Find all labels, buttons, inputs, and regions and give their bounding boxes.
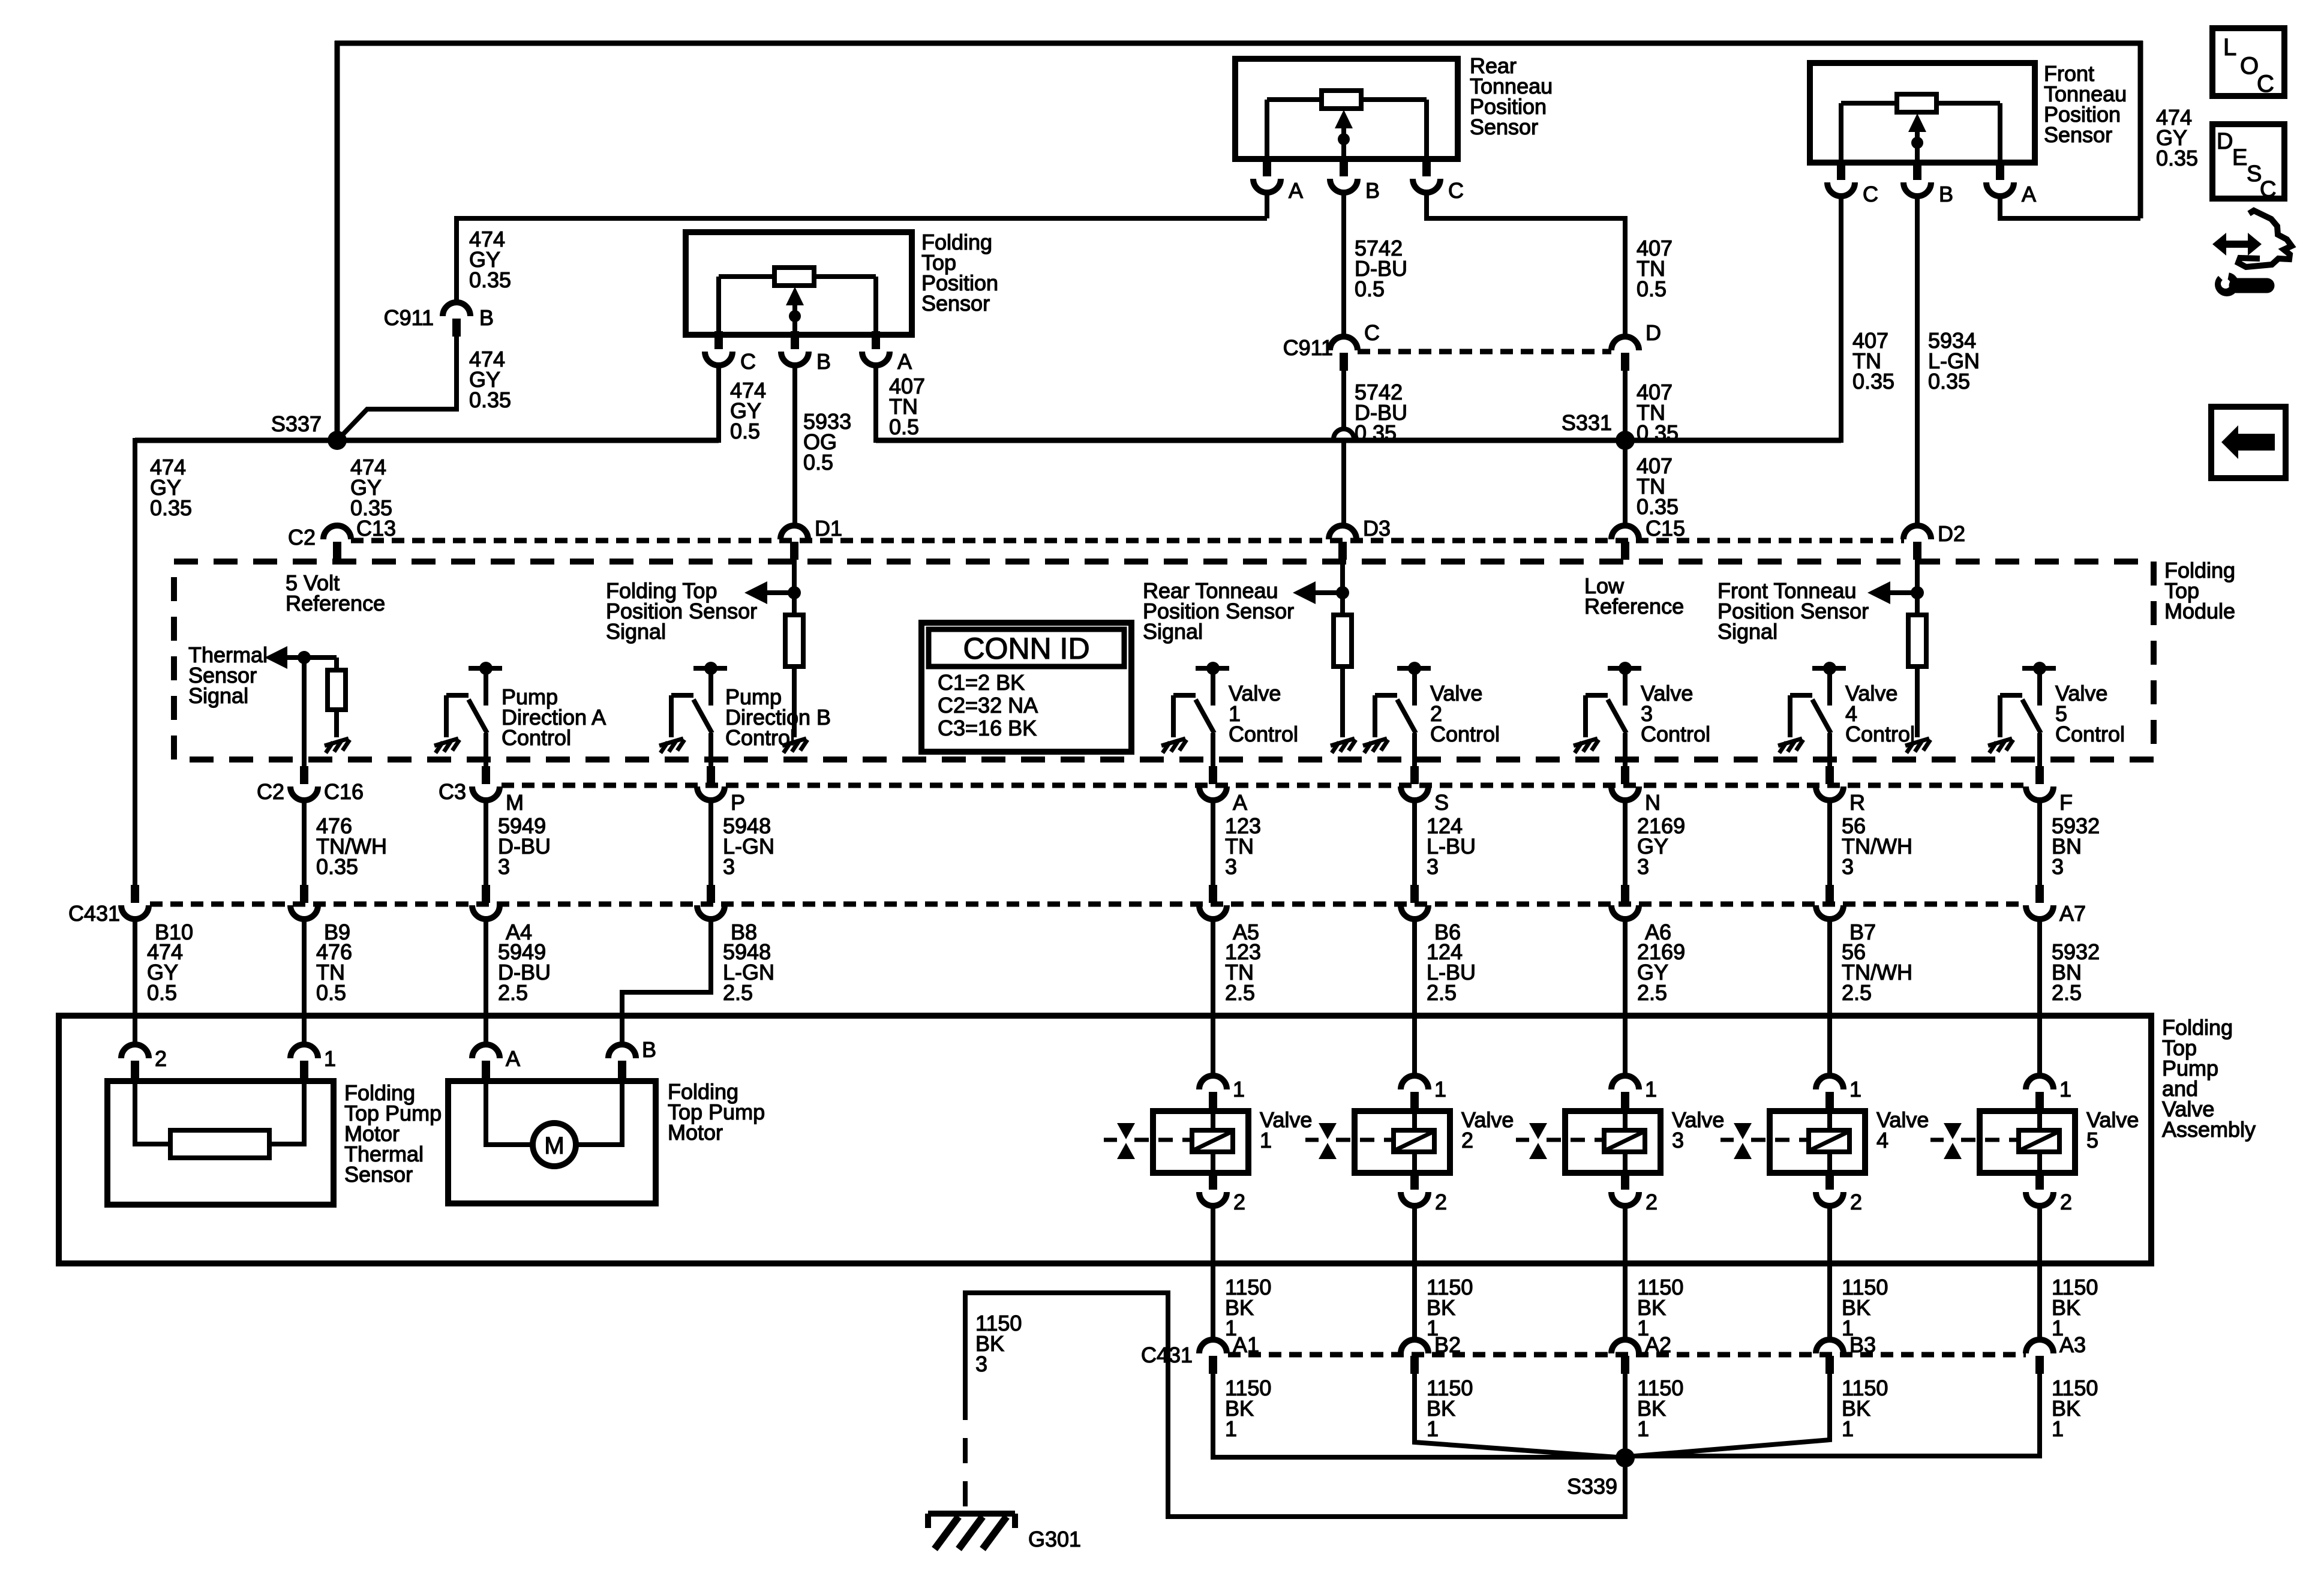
svg-text:C911: C911 [384,305,434,330]
wire module to C431 [1412,800,1417,885]
label Valve 4 Control [1845,681,1915,746]
svg-text:2.5: 2.5 [1427,980,1457,1005]
connector pin A motor [472,1044,500,1079]
node Rear Tonneau signal junction [1293,581,1349,604]
label pin A5 [1233,920,1259,944]
connector C911 D [1611,337,1639,371]
box valve 3 solenoid [1565,1111,1661,1173]
label Rear Tonneau Position Sensor [1470,53,1553,139]
connector C911 C [1330,337,1358,371]
label pin 2 valve 1 [1233,1190,1245,1214]
svg-text:B: B [1939,182,1953,206]
wire module to C431 [1623,800,1628,885]
wire 474 GY left vertical [335,41,340,440]
connector D1 [780,526,808,560]
svg-text:N: N [1645,790,1661,815]
label wire 2169 GY lower [1637,939,1685,1005]
icon LOC box [2212,28,2284,97]
wire valve 4 pin2 down [1827,1206,1832,1341]
svg-text:C3=16 BK: C3=16 BK [938,716,1037,740]
connector A5 C431 [1199,885,1227,919]
label wire 1150 BK below B2 [1427,1376,1473,1441]
svg-text:S337: S337 [271,412,322,436]
wire Folding Top resistor to ground [792,667,797,737]
svg-text:R: R [1849,790,1865,815]
connector pin 1 valve 5 [2026,1076,2053,1110]
label pin 2 valve 2 [1435,1190,1447,1214]
svg-text:A: A [1289,178,1303,203]
label pin A rear [1289,178,1303,203]
connector B3 C431 bottom [1816,1340,1843,1374]
connector pin B rear sensor [1330,158,1358,193]
wire folding sensor pin C drop [716,365,721,443]
wire 474 GY right vertical [2138,41,2143,218]
label wire 1150 BK below A2 [1637,1376,1683,1441]
connector line C431 dashed [150,902,2026,907]
svg-text:C2: C2 [257,779,284,804]
label pin A folding [897,349,912,374]
svg-text:1: 1 [1849,1077,1861,1101]
wire valve 3 pin2 down [1623,1206,1628,1341]
svg-text:M: M [544,1133,564,1159]
label wire 407 TN front C [1852,328,1894,394]
svg-text:C1=2 BK: C1=2 BK [938,670,1025,695]
label pin A [1233,790,1247,815]
label pin B folding [816,349,831,374]
label Folding Top Pump Motor Thermal Sensor [344,1080,442,1187]
label Rear Tonneau Position Sensor signal [1143,578,1294,644]
connector B8 C431 [697,885,725,919]
svg-text:C16: C16 [324,779,364,804]
label pin B rear [1365,178,1380,203]
component Front Tonneau Position Sensor [1810,63,2035,163]
svg-text:S331: S331 [1562,410,1612,435]
label Valve 2 [1461,1107,1514,1152]
wire S339 to ground run [965,1293,1625,1517]
wire C431 to pump assembly [484,919,488,1044]
label Valve 5 [2086,1107,2139,1152]
label pin C16 [324,779,364,804]
svg-text:3: 3 [2052,854,2064,879]
label pin 2 valve 3 [1646,1190,1658,1214]
svg-text:2: 2 [1435,1190,1447,1214]
label pin R [1849,790,1865,815]
label pin B front [1939,182,1953,206]
label wire 407 C911 to S331 [1637,380,1679,445]
svg-text:Signal: Signal [606,619,666,644]
label wire 474 GY left bus [150,455,192,520]
connector pin 2 valve 5 [2026,1172,2053,1206]
label Folding Top Pump Motor [668,1079,765,1145]
label wire 474 GY below S337 [350,455,392,520]
svg-text:1: 1 [1225,1416,1237,1441]
svg-text:Motor: Motor [668,1120,723,1145]
svg-text:2.5: 2.5 [498,980,528,1005]
label pin 1 valve 2 [1434,1077,1446,1101]
svg-text:B: B [1365,178,1380,203]
junction S331 [1616,431,1635,450]
svg-text:A7: A7 [2059,901,2086,926]
switch Valve 5 Control [1988,662,2056,766]
hydraulic valve symbol 4 [1721,1123,1807,1159]
label pin B9 [324,920,350,944]
svg-text:2.5: 2.5 [1225,980,1255,1005]
wire motor pin A internal [486,1079,533,1145]
label wire 5742 rear B upper [1355,236,1407,301]
label pin 2 valve 5 [2060,1190,2072,1214]
label Pump Direction B Control [725,685,831,750]
wire A3 to S339 [1628,1374,2040,1456]
box valve 5 solenoid [1980,1111,2075,1173]
wire B8 to pump motor B [622,919,711,1044]
connector A2 C431 bottom [1611,1340,1639,1374]
svg-text:3: 3 [498,854,510,879]
switch Valve 2 Control [1363,662,1431,766]
connector pin 2 valve 4 [1816,1172,1843,1206]
svg-text:D: D [1646,320,1661,345]
label wire 476 TN/WH [316,813,387,879]
connector pin 1 valve 4 [1816,1076,1843,1110]
svg-text:0.5: 0.5 [1355,277,1385,301]
svg-text:Control: Control [725,725,795,750]
label pin 1 valve 3 [1645,1077,1657,1101]
box valve 4 solenoid [1770,1111,1865,1173]
wire 5742 C911 C to D3 with hop [1334,370,1354,527]
svg-text:A: A [506,1046,520,1071]
svg-text:0.5: 0.5 [889,415,919,439]
label pin S [1434,790,1449,815]
svg-text:2.5: 2.5 [723,980,753,1005]
svg-text:1: 1 [1842,1416,1854,1441]
svg-text:C: C [2260,177,2276,202]
wire Folding Top signal drop [792,560,797,615]
svg-text:C: C [1863,182,1878,206]
svg-text:0.35: 0.35 [1355,421,1397,445]
wire C431 to valve [1827,919,1832,1077]
svg-text:C: C [1364,320,1380,345]
connector pin 1 valve 3 [1611,1076,1639,1110]
wire 407 TN C911 D to S331 to C15 [1623,370,1628,527]
node Folding Top signal junction [744,581,801,604]
switch Pump Direction B Control [659,662,727,766]
svg-text:A3: A3 [2059,1332,2086,1357]
svg-text:0.35: 0.35 [1637,494,1679,519]
label pin C rear [1448,178,1464,203]
label wire 474 GY top right [2156,105,2198,170]
svg-text:2.5: 2.5 [2052,980,2082,1005]
wire 407 TN bus [876,438,1841,443]
label pin B2 [1434,1332,1461,1357]
label wire 474 GY C911 above [469,227,511,292]
wire module to C431 [1827,800,1832,885]
box Folding Top Pump and Valve Assembly [59,1016,2151,1263]
wire 474 GY bus at S337 [135,438,719,443]
label wire 1150 BK below B3 [1842,1376,1888,1441]
label C13 [356,516,396,541]
label wire 476 TN lower [316,939,352,1005]
label Valve 4 [1876,1107,1929,1152]
label C3 row2 [439,779,466,804]
svg-text:A1: A1 [1233,1332,1259,1357]
connector D2 [1903,526,1931,560]
switch Valve 3 Control [1574,662,1641,766]
hydraulic valve symbol 5 [1930,1123,2017,1159]
connector pin A folding sensor [862,331,890,365]
label wire 5742 C911 to D3 [1355,380,1407,445]
svg-text:F: F [2059,790,2073,815]
label wire 5948 L-GN [723,813,774,879]
label wire 5949 D-BU [498,813,551,879]
connector D3 [1329,526,1356,560]
svg-text:2: 2 [1233,1190,1245,1214]
ground Folding Top resistor [782,739,807,753]
label D1 [815,516,842,541]
resistor Rear Tonneau signal [1334,615,1352,667]
wire thermal resistor to ground [334,710,339,737]
connector A3 C431 bottom [2026,1340,2053,1374]
svg-text:1: 1 [2052,1416,2064,1441]
wire C431 to pump assembly [302,919,307,1044]
label Valve 1 [1260,1107,1312,1152]
wire module to C431 [1211,800,1215,885]
label pin A7 [2059,901,2086,926]
label Pump Direction A Control [502,685,606,750]
svg-text:4: 4 [1876,1128,1888,1152]
wire Front Tonneau signal drop [1915,560,1920,615]
svg-text:3: 3 [1225,854,1237,879]
wire module to C431 [302,800,307,885]
label wire 5948 L-GN lower [723,939,774,1005]
svg-text:D: D [2217,129,2233,154]
svg-text:P: P [731,790,745,815]
label pin A front [2022,182,2036,206]
svg-text:0.35: 0.35 [350,496,392,520]
label pin F [2059,790,2073,815]
wire C431 to valve [1211,919,1215,1077]
svg-text:0.5: 0.5 [803,450,833,475]
svg-text:C: C [1448,178,1464,203]
svg-text:C15: C15 [1646,516,1685,541]
svg-text:Sensor: Sensor [921,291,990,316]
label Valve 2 Control [1430,681,1500,746]
svg-text:1: 1 [2059,1077,2071,1101]
connector A4 C431 [472,885,500,919]
switch Valve 1 Control [1161,662,1229,766]
label wire 1150 BK valve 4 [1842,1275,1888,1340]
svg-text:C911: C911 [1283,335,1333,360]
label S337 [271,412,322,436]
label C911 upper [384,305,434,330]
svg-text:Signal: Signal [1143,619,1203,644]
wire rear sensor pin A drop [1265,194,1269,218]
label pin A4 [506,920,532,944]
svg-text:2.5: 2.5 [1637,980,1667,1005]
svg-text:1: 1 [1233,1077,1245,1101]
wire valve 1 pin2 down [1211,1206,1215,1341]
hydraulic valve symbol 3 [1516,1123,1603,1159]
label 5 Volt Reference [286,571,385,616]
svg-text:C: C [2257,71,2274,97]
connector pin B folding sensor [781,331,809,365]
svg-text:Sensor: Sensor [1470,115,1538,139]
svg-text:A: A [897,349,912,374]
svg-text:Assembly: Assembly [2162,1117,2256,1142]
svg-text:C3: C3 [439,779,466,804]
solenoid valve 5 [2019,1111,2059,1173]
wire valve 2 pin2 down [1412,1206,1417,1341]
connector pin B front sensor [1903,162,1931,196]
connector C911 B [443,302,470,337]
label Low Reference [1584,574,1684,619]
wire B3 to S339 [1628,1374,1830,1457]
connector M module [472,766,500,800]
svg-text:0.35: 0.35 [1637,421,1679,445]
label Valve 3 Control [1641,681,1710,746]
svg-text:2: 2 [1646,1190,1658,1214]
wire B2 to S339 [1415,1374,1625,1458]
label pin M [506,790,524,815]
label pin B10 [155,920,193,944]
label Folding Top Module [2164,558,2235,623]
wire front sensor pin B to D2 [1915,197,1920,527]
svg-text:C2=32 NA: C2=32 NA [938,693,1038,718]
connector B6 C431 [1401,885,1428,919]
label Folding Top Pump and Valve Assembly [2162,1015,2256,1142]
solenoid valve 2 [1394,1111,1434,1173]
label wire 474 GY lower [147,939,183,1005]
wire 474 GY to front sensor pin A [2000,197,2140,221]
connector pin A rear sensor [1253,158,1281,193]
svg-text:1: 1 [1427,1416,1439,1441]
svg-text:0.5: 0.5 [730,419,760,443]
label pin C front [1863,182,1878,206]
label wire 2169 GY [1637,813,1685,879]
connector line M-F dashed [502,783,2026,788]
svg-text:Signal: Signal [188,683,248,708]
svg-text:0.35: 0.35 [1928,369,1970,394]
label C431 lower [1141,1343,1193,1367]
wire thermal pin2 internal [135,1079,170,1144]
svg-text:B: B [479,305,494,330]
label pin D C911 [1646,320,1661,345]
connector pin 1 valve 2 [1401,1076,1428,1110]
wire A1 to S339 [1213,1374,1620,1457]
label Valve 3 [1672,1107,1724,1152]
wire 474 GY horizontal to rear sensor pin A [457,216,1267,221]
svg-text:B2: B2 [1434,1332,1461,1357]
label C15 [1646,516,1685,541]
svg-text:Module: Module [2164,599,2235,623]
connector pin C rear sensor [1413,158,1440,193]
svg-text:3: 3 [1427,854,1439,879]
svg-text:0.35: 0.35 [469,268,511,292]
svg-text:A2: A2 [1645,1332,1671,1357]
label Front Tonneau Position Sensor [2044,61,2127,147]
connector pin 2 valve 3 [1611,1172,1639,1206]
svg-text:2: 2 [1850,1190,1862,1214]
icon vehicle adjust [2212,211,2292,296]
svg-text:0.5: 0.5 [316,980,346,1005]
svg-text:1: 1 [324,1046,336,1071]
ground G301 [928,1514,1015,1549]
label wire 1150 BK valve 1 [1225,1275,1271,1340]
wire C431 to pump assembly [133,919,137,1044]
box Folding Top Pump Motor Thermal Sensor [107,1081,334,1205]
label pin A1 [1233,1332,1259,1357]
label pin 1 valve 5 [2059,1077,2071,1101]
svg-text:Sensor: Sensor [344,1162,413,1187]
connector B10 C431 [121,885,149,919]
switch Valve 4 Control [1778,662,1846,766]
svg-text:3: 3 [1842,854,1854,879]
label S331 [1562,410,1612,435]
connector pin C folding sensor [705,331,732,365]
wire rear sensor pin B to C911 C [1341,194,1346,338]
label pin B3 [1849,1332,1876,1357]
connector B9 C431 [290,885,318,919]
label pin B C911 [479,305,494,330]
resistor Folding Top signal [785,615,803,667]
connector pin A front sensor [1986,162,2014,196]
label wire 5932 BN [2052,813,2100,879]
connector C13 [323,526,351,560]
svg-text:D3: D3 [1363,516,1391,541]
label pin C folding [740,349,756,374]
label D2 [1938,521,1965,546]
label wire 407 rear C upper [1637,236,1673,301]
wire module to C431 [708,800,713,885]
svg-text:1: 1 [1260,1128,1272,1152]
wire A2 to S339 [1623,1374,1628,1458]
svg-text:0.35: 0.35 [1852,369,1894,394]
svg-text:2: 2 [155,1046,167,1071]
wire thermal pin1 internal [269,1079,304,1144]
svg-text:1: 1 [1434,1077,1446,1101]
svg-text:2: 2 [2060,1190,2072,1214]
switch Pump Direction A Control [434,662,502,766]
label Front Tonneau Position Sensor signal [1718,578,1869,644]
connector pin C front sensor [1827,162,1855,196]
label G301 [1028,1527,1081,1551]
svg-text:CONN ID: CONN ID [963,632,1089,665]
label wire 5932 BN lower [2052,939,2100,1005]
wire 474 GY left drop to B10 [133,438,137,885]
connector B7 C431 [1816,885,1843,919]
connector line C911 C-D dashed [1358,349,1611,355]
label D3 [1363,516,1391,541]
svg-text:L: L [2223,34,2236,61]
label wire 407 S331 to C15 [1637,454,1679,519]
svg-text:3: 3 [1672,1128,1684,1152]
wire valve 5 pin2 down [2037,1206,2042,1341]
junction S337 [328,431,347,450]
connector C15 [1611,526,1639,560]
label wire 124 L-BU [1427,813,1476,879]
solenoid valve 3 [1604,1111,1645,1173]
connector line C431 bottom dashed [1228,1352,2026,1358]
wire 474 GY C911 upper vertical [454,216,459,304]
label wire 1150 BK valve 2 [1427,1275,1473,1340]
wire C431 to valve [2037,919,2042,1077]
label Folding Top Position Sensor signal [606,578,757,644]
svg-text:1: 1 [1645,1077,1657,1101]
svg-text:3: 3 [1637,854,1649,879]
connector pin 2 thermal [121,1044,149,1079]
svg-text:0.35: 0.35 [150,496,192,520]
connector R module [1816,766,1843,800]
label Valve 1 Control [1229,681,1298,746]
svg-text:Control: Control [1229,722,1298,746]
